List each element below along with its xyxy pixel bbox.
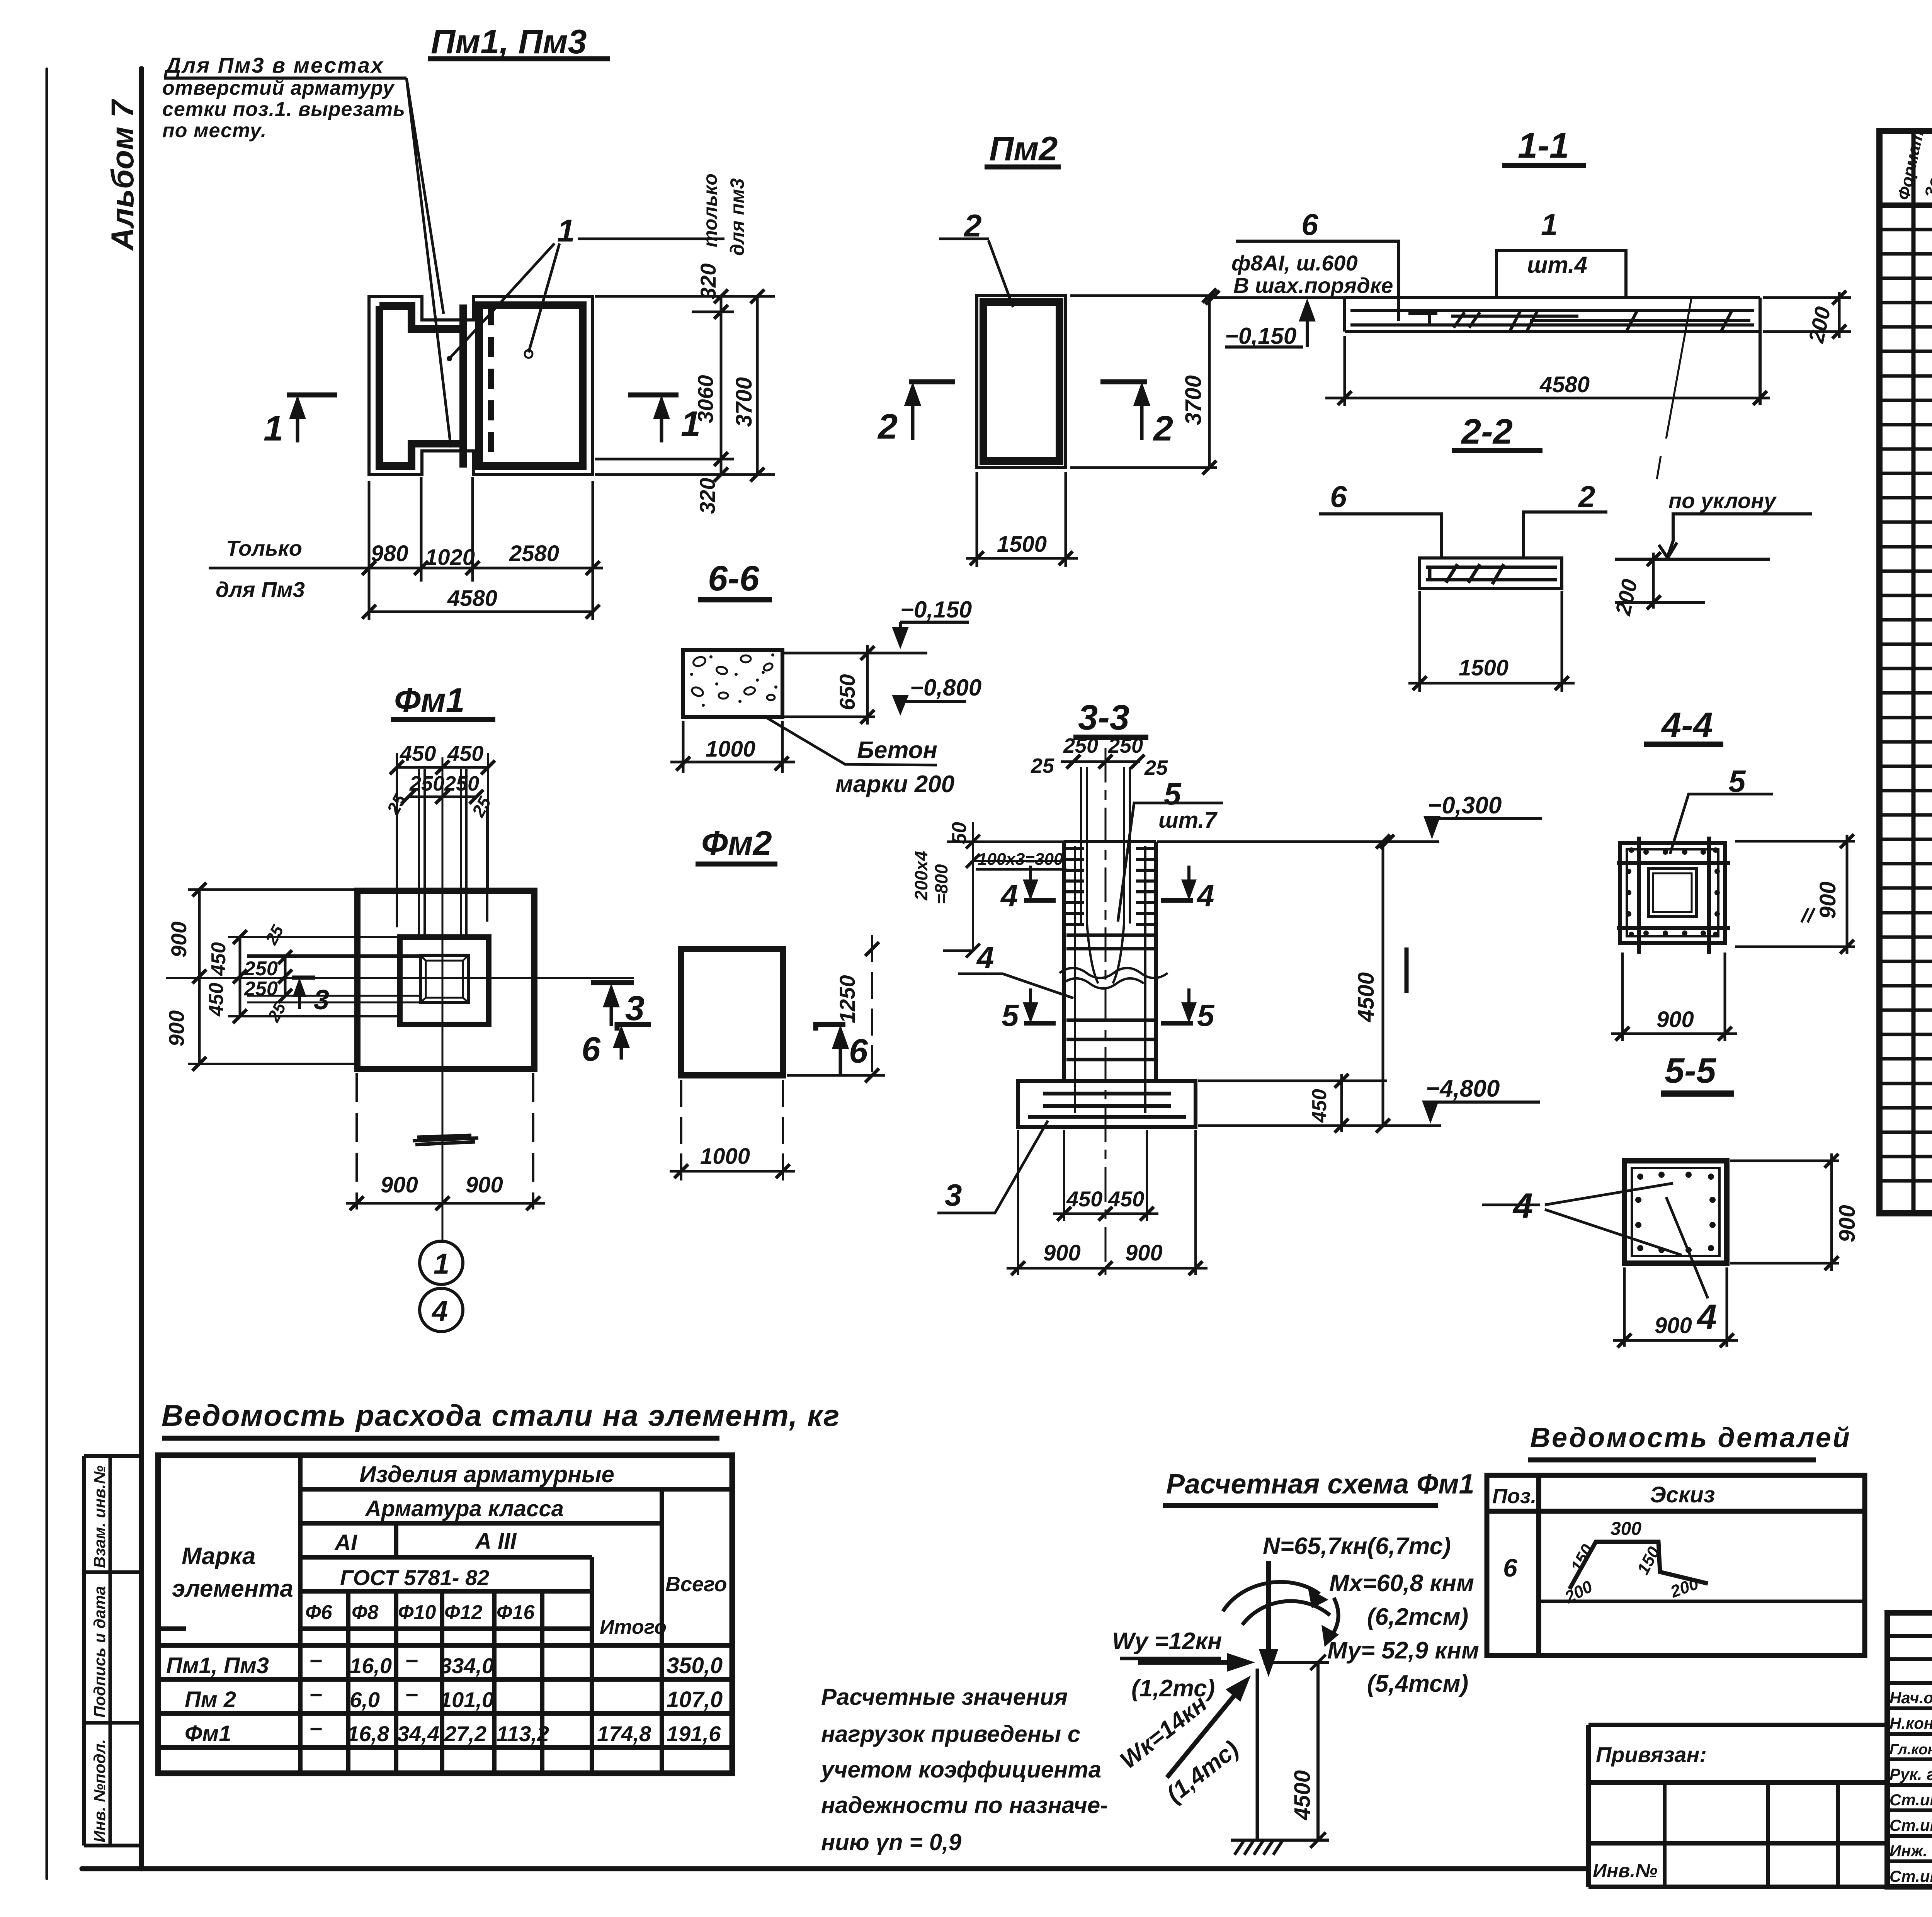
- svg-text:2: 2: [1153, 409, 1173, 448]
- svg-text:Нач.отд.: Нач.отд.: [1889, 1689, 1932, 1707]
- Pm1 bottom dim extension lines: [369, 477, 593, 620]
- svg-text:Марка: Марка: [182, 1543, 255, 1570]
- 3-3 column cage verticals: [1075, 846, 1145, 1113]
- Fm1 inner double square: [420, 955, 468, 1002]
- svg-text:6-6: 6-6: [708, 559, 760, 598]
- section mark 3 inside Fm1: [292, 978, 315, 1009]
- break line artifact: [1657, 297, 1692, 479]
- 4-4 stirrup cross lines: [1617, 837, 1730, 954]
- svg-text:Итого: Итого: [600, 1616, 667, 1638]
- svg-text:650: 650: [835, 674, 859, 710]
- svg-text:3: 3: [314, 985, 329, 1015]
- svg-text:191,6: 191,6: [667, 1721, 721, 1746]
- svg-text:5: 5: [1164, 777, 1182, 811]
- svg-text:2-2: 2-2: [1461, 412, 1513, 451]
- svg-text:107,0: 107,0: [667, 1687, 723, 1712]
- svg-text:5: 5: [1197, 998, 1215, 1032]
- 2-2 dim 1500: [1420, 591, 1562, 692]
- Fm1 left dim 900 900: [188, 890, 359, 1064]
- svg-text:В шах.порядке: В шах.порядке: [1233, 273, 1393, 298]
- stamp column box: [84, 1456, 140, 1846]
- sheet frame bottom line: [82, 1866, 1588, 1871]
- axis circle 1: [420, 1241, 463, 1284]
- svg-text:ф8АI, ш.600: ф8АI, ш.600: [1231, 251, 1358, 275]
- 5-5 dim 900 bottom: [1624, 1267, 1727, 1347]
- svg-text:−: −: [309, 1716, 322, 1742]
- svg-text:Привязан:: Привязан:: [1596, 1742, 1707, 1767]
- privyazan box: [1588, 1725, 1887, 1887]
- section mark 2 right: [1100, 382, 1150, 440]
- slab outline 1-1: [1345, 298, 1760, 405]
- svg-text:для Пм3: для Пм3: [216, 577, 305, 602]
- svg-text:АI: АI: [334, 1530, 358, 1555]
- svg-text:3060: 3060: [693, 375, 718, 423]
- svg-text:900: 900: [466, 1172, 503, 1197]
- section mark 5 left: [1023, 988, 1056, 1023]
- svg-text:−: −: [309, 1682, 322, 1708]
- svg-text:3700: 3700: [731, 377, 757, 427]
- svg-text:Всего: Всего: [665, 1573, 727, 1596]
- svg-text:5: 5: [1002, 998, 1019, 1032]
- svg-text:3: 3: [945, 1178, 962, 1212]
- svg-text:2: 2: [1578, 480, 1595, 514]
- leader to beton marki 200: [767, 718, 937, 765]
- svg-text:350,0: 350,0: [667, 1653, 723, 1678]
- svg-text:6: 6: [1301, 208, 1318, 242]
- svg-text:Пм2: Пм2: [989, 129, 1058, 168]
- section mark 3 right of Fm1: [591, 983, 634, 1026]
- 3-3 footing: [1018, 1081, 1196, 1127]
- svg-text:4580: 4580: [1539, 372, 1590, 397]
- svg-text:1000: 1000: [700, 1144, 750, 1169]
- 3-3 column rebar verticals: [1081, 767, 1130, 924]
- svg-text:−: −: [405, 1682, 418, 1708]
- svg-text:4500: 4500: [1354, 972, 1379, 1022]
- svg-text:450: 450: [1108, 1187, 1144, 1211]
- svg-text:334,0: 334,0: [440, 1653, 494, 1678]
- Fm1 bottom dim 900 900: [357, 1073, 533, 1209]
- spec table header bottom line: [1879, 202, 1932, 208]
- 3-3 break squiggle: [1060, 968, 1168, 978]
- bent detail bars at left: [1408, 310, 1731, 331]
- svg-text:Инж.: Инж.: [1889, 1842, 1927, 1860]
- svg-text:101,0: 101,0: [440, 1687, 494, 1712]
- slab rebar bars 1-1: [1350, 310, 1754, 325]
- Pm1 right dim line 320 3060 320: [720, 296, 723, 475]
- svg-text:(5,4тсм): (5,4тсм): [1367, 1670, 1468, 1697]
- svg-text:Альбом 7: Альбом 7: [105, 99, 140, 251]
- 4-4 outer square: [1620, 843, 1725, 943]
- dim 4500: [1382, 842, 1384, 1126]
- svg-text:34,4: 34,4: [397, 1721, 439, 1746]
- level line -0,300: [1157, 840, 1439, 843]
- 3-3 bottom dim 450 450: [1064, 1130, 1147, 1221]
- svg-text:нагрузок приведены с: нагрузок приведены с: [821, 1721, 1080, 1747]
- svg-text:по месту.: по месту.: [162, 119, 267, 142]
- 4-4 rebar dots: [1626, 847, 1720, 937]
- Fm2 square: [681, 949, 783, 1075]
- svg-text:6,0: 6,0: [350, 1687, 380, 1712]
- svg-text:16,8: 16,8: [347, 1721, 389, 1746]
- Pm1 bottom dim line row2 4580: [369, 611, 593, 613]
- svg-text:Арматура класса: Арматура класса: [364, 1496, 564, 1521]
- svg-text:Гл.констр.: Гл.констр.: [1889, 1742, 1932, 1758]
- Pm1 plan outer contour with notches: [369, 296, 593, 475]
- svg-text:250: 250: [444, 772, 479, 795]
- Pm2 dim 1500: [977, 472, 1066, 567]
- svg-text:нию γn = 0,9: нию γn = 0,9: [821, 1829, 962, 1855]
- svg-text:450: 450: [207, 942, 230, 976]
- Pm1 plan dashed joint line: [488, 305, 494, 466]
- 3-3 footing rebars: [1028, 1094, 1186, 1117]
- Fm1 pedestal square: [400, 937, 489, 1024]
- svg-text:4: 4: [1196, 878, 1214, 913]
- svg-text:Изделия арматурные: Изделия арматурные: [359, 1461, 614, 1487]
- svg-text:элемента: элемента: [172, 1575, 293, 1602]
- Fm1 vertical rebar lines: [397, 769, 487, 938]
- svg-text:по уклону: по уклону: [1668, 488, 1777, 513]
- svg-text:900: 900: [1815, 881, 1840, 919]
- 5-5 rebar dots: [1635, 1172, 1716, 1253]
- concrete block 6-6: [683, 650, 782, 717]
- svg-text:1500: 1500: [997, 532, 1047, 557]
- svg-text:900: 900: [1043, 1240, 1081, 1266]
- 5-5 outer square: [1624, 1161, 1727, 1263]
- svg-text:учетом коэффициента: учетом коэффициента: [820, 1757, 1101, 1783]
- 3-3 rebar funnel: [1087, 924, 1124, 983]
- Pm1 right dim line 3700: [756, 296, 759, 475]
- svg-text:Пм 2: Пм 2: [185, 1687, 236, 1712]
- svg-text:шт.4: шт.4: [1527, 252, 1587, 278]
- steel table horizontals: [158, 1489, 732, 1629]
- axis circle 4: [420, 1288, 463, 1332]
- Fm1 axis lines: [166, 757, 634, 1136]
- section mark 6 right of Fm2: [816, 1024, 849, 1074]
- load N arrow: [1259, 1561, 1278, 1677]
- svg-text:Расчетные значения: Расчетные значения: [821, 1684, 1068, 1710]
- Fm1 top dim 250 250: [408, 796, 476, 798]
- svg-text:250: 250: [409, 772, 444, 795]
- svg-text:16,0: 16,0: [350, 1653, 392, 1678]
- sheet frame left thick line: [139, 69, 144, 1869]
- Fm1 left dim 450 450: [239, 937, 241, 1016]
- svg-text:450: 450: [1066, 1187, 1102, 1211]
- svg-text:отверстий арматуру: отверстий арматуру: [162, 77, 395, 99]
- svg-text:сетки поз.1. вырезать: сетки поз.1. вырезать: [162, 98, 405, 121]
- concrete pebbles: [690, 655, 775, 700]
- svg-text:Взам. инв.№: Взам. инв.№: [90, 1465, 109, 1568]
- steel table outer border: [158, 1455, 732, 1773]
- svg-text:1-1: 1-1: [1518, 126, 1569, 165]
- 3-3 center axis: [1105, 748, 1107, 1275]
- svg-text:−0,150: −0,150: [1225, 323, 1296, 349]
- correction scribble: [413, 1135, 478, 1145]
- svg-text:4: 4: [1000, 878, 1018, 913]
- svg-text:Фм2: Фм2: [701, 824, 772, 862]
- Fm1 outer square: [357, 891, 534, 1069]
- album label "Альбом 7" rotated: [122, 181, 123, 182]
- svg-text:100х3=300: 100х3=300: [978, 850, 1063, 869]
- svg-text:Инв.№: Инв.№: [1593, 1860, 1658, 1881]
- svg-text:Фм1: Фм1: [185, 1721, 231, 1746]
- svg-text:1: 1: [557, 213, 575, 248]
- Pm2 inner thick rect: [983, 302, 1060, 461]
- Pm1 right dim extension lines: [595, 296, 775, 475]
- section mark 4 left: [1023, 866, 1056, 900]
- svg-text:−0,150: −0,150: [900, 597, 972, 623]
- svg-text:320: 320: [696, 264, 720, 299]
- svg-text:6: 6: [1503, 1553, 1518, 1582]
- svg-text:450: 450: [447, 741, 483, 765]
- svg-text:Wу =12кн: Wу =12кн: [1112, 1628, 1222, 1655]
- steel table verticals: [300, 1455, 662, 1773]
- svg-text:Рук. гр.: Рук. гр.: [1889, 1765, 1932, 1783]
- svg-text:Мх=60,8 кнм: Мх=60,8 кнм: [1329, 1570, 1474, 1597]
- svg-text:900: 900: [381, 1172, 418, 1197]
- svg-text:Му= 52,9 кнм: Му= 52,9 кнм: [1327, 1637, 1479, 1664]
- dim 4580 under 1-1: [1344, 336, 1346, 406]
- Pm1 plan inner thick contour left part: [379, 306, 463, 466]
- parts list table: [1487, 1475, 1865, 1655]
- svg-text:200х4: 200х4: [911, 851, 931, 901]
- svg-text:Ст.инж.: Ст.инж.: [1889, 1791, 1932, 1809]
- svg-text:Ведомость деталей: Ведомость деталей: [1530, 1422, 1851, 1453]
- svg-text:900: 900: [1656, 1007, 1694, 1032]
- svg-text:−0,800: −0,800: [910, 675, 981, 701]
- svg-text:1: 1: [1541, 208, 1558, 242]
- spec table outer border: [1879, 131, 1932, 1213]
- section mark 6 right of Fm1: [613, 1024, 651, 1060]
- svg-text:для пм3: для пм3: [726, 178, 748, 256]
- svg-text:174,8: 174,8: [597, 1721, 651, 1746]
- spec table column lines: [1913, 131, 1932, 1213]
- section mark 5 right: [1161, 988, 1197, 1023]
- svg-text:300: 300: [1611, 1519, 1641, 1539]
- 4-4 inner thin square: [1627, 849, 1718, 936]
- dim 450 lower right: [1198, 1081, 1441, 1126]
- svg-text:900: 900: [1655, 1313, 1692, 1338]
- Pm2 outer rect: [977, 296, 1066, 468]
- 4-4 dim 900 right: [1735, 841, 1855, 947]
- section mark 2 left: [904, 382, 955, 440]
- svg-text:250: 250: [244, 958, 278, 980]
- svg-text:N=65,7кн(6,7тс): N=65,7кн(6,7тс): [1263, 1533, 1451, 1560]
- svg-text:1020: 1020: [425, 545, 475, 570]
- svg-text:4500: 4500: [1290, 1770, 1315, 1820]
- svg-text:4: 4: [1696, 1298, 1717, 1337]
- Pm1 plan central thick edge: [459, 304, 467, 468]
- svg-text:6: 6: [582, 1030, 601, 1068]
- signature table grid: [1887, 1613, 1932, 1887]
- scheme 4500 dim: [1264, 1655, 1329, 1848]
- svg-text:6: 6: [1330, 480, 1347, 514]
- 5-5 inner thin square: [1632, 1168, 1719, 1256]
- svg-text:(1,2тс): (1,2тс): [1131, 1675, 1215, 1702]
- spec table row lines (left columns): [1879, 230, 1932, 1181]
- Fm2 dim 1000: [681, 1080, 783, 1180]
- section mark 1 left: [287, 395, 337, 442]
- svg-text:1500: 1500: [1459, 655, 1509, 680]
- detail 6 sketch polyline: [1570, 1542, 1708, 1589]
- svg-text:(6,2тсм): (6,2тсм): [1367, 1604, 1468, 1630]
- 4-4 inner double square: [1648, 869, 1696, 917]
- Fm1 top dim 450 450: [397, 766, 488, 769]
- svg-text:Ст.инж.: Ст.инж.: [1889, 1816, 1932, 1834]
- svg-text:4-4: 4-4: [1661, 706, 1713, 745]
- svg-text:1250: 1250: [835, 975, 859, 1023]
- Pm2 dim 3700: [1070, 296, 1217, 468]
- svg-text:4580: 4580: [447, 586, 497, 611]
- 5-5 dim 900 right: [1730, 1161, 1839, 1263]
- Fm2 dim 1250: [787, 1074, 885, 1077]
- svg-text:Инв. №подл.: Инв. №подл.: [90, 1739, 109, 1842]
- svg-text:Ведомость расхода стали на эле: Ведомость расхода стали на элемент, кг: [162, 1398, 840, 1432]
- svg-text:Фм1: Фм1: [394, 681, 465, 719]
- note leader lines to plan: [406, 78, 451, 447]
- svg-text:1000: 1000: [706, 737, 755, 762]
- svg-text:только: только: [699, 173, 721, 247]
- svg-text:ГОСТ 5781- 82: ГОСТ 5781- 82: [340, 1565, 489, 1590]
- svg-text:113,2: 113,2: [497, 1721, 549, 1746]
- 3-3 full stirrups: [1066, 935, 1154, 1060]
- svg-text:Пм1, Пм3: Пм1, Пм3: [166, 1653, 269, 1678]
- signature rows texts: [1889, 1687, 1932, 1885]
- 3-3 bottom dim 900 900: [1018, 1130, 1196, 1275]
- svg-text:5-5: 5-5: [1665, 1051, 1717, 1090]
- svg-text:=800: =800: [931, 864, 951, 904]
- svg-text:Эскиз: Эскиз: [1650, 1482, 1715, 1507]
- svg-text:3700: 3700: [1181, 375, 1206, 425]
- svg-text:450: 450: [400, 741, 436, 765]
- svg-text:4: 4: [976, 940, 994, 975]
- svg-text:2580: 2580: [509, 541, 559, 566]
- svg-text:450: 450: [205, 983, 228, 1017]
- svg-text:1: 1: [264, 409, 283, 448]
- svg-text:3-3: 3-3: [1078, 698, 1129, 737]
- svg-text:900: 900: [1125, 1240, 1163, 1266]
- 2-2 slab rebars: [1426, 564, 1557, 584]
- svg-text:Подпись и дата: Подпись и дата: [90, 1586, 109, 1718]
- svg-text:шт.7: шт.7: [1158, 808, 1218, 833]
- svg-text:980: 980: [371, 541, 408, 566]
- Pm1 bottom dim line row1 980 1020 2580: [209, 567, 603, 570]
- svg-text:Расчетная схема Фм1: Расчетная схема Фм1: [1166, 1469, 1475, 1500]
- 3-3 dense stirrups top: [1064, 849, 1084, 924]
- svg-text:2: 2: [877, 407, 898, 446]
- svg-text:марки 200: марки 200: [835, 771, 954, 798]
- svg-text:Пм1, Пм3: Пм1, Пм3: [431, 22, 587, 61]
- svg-text:250: 250: [1108, 734, 1143, 757]
- svg-text:Ф10: Ф10: [398, 1601, 436, 1624]
- Wk arrow diagonal: [1167, 1675, 1251, 1778]
- sheet frame left thin line: [46, 69, 48, 1879]
- svg-text:Ф12: Ф12: [444, 1601, 483, 1624]
- Pm1 plan right slab inner thick rect: [479, 305, 583, 466]
- section mark 4 right: [1161, 866, 1197, 900]
- 6-6 dim 650: [786, 653, 875, 717]
- svg-text:450: 450: [1308, 1089, 1331, 1123]
- 3-3 column outline: [1064, 842, 1156, 1081]
- ground hatch: [1231, 1840, 1285, 1855]
- svg-text:А III: А III: [474, 1529, 517, 1554]
- 2-2 slab band: [1420, 558, 1562, 589]
- 4-4 dim 900 bottom: [1622, 953, 1725, 1041]
- svg-text:900: 900: [1835, 1205, 1860, 1242]
- svg-text:900: 900: [164, 1010, 189, 1046]
- svg-text:Ф8: Ф8: [352, 1601, 379, 1624]
- svg-text:Ф16: Ф16: [497, 1601, 535, 1624]
- svg-text:4: 4: [431, 1295, 448, 1327]
- svg-text:900: 900: [167, 922, 191, 958]
- svg-text:250: 250: [1063, 734, 1098, 757]
- svg-text:Только: Только: [226, 536, 302, 560]
- 2-2 level lines and dim 200: [1615, 559, 1770, 602]
- stamp column inner divider: [109, 1456, 112, 1846]
- svg-text:Поз.: Поз.: [1492, 1485, 1536, 1508]
- svg-text:Н.контр.: Н.контр.: [1889, 1714, 1932, 1732]
- svg-text:Для Пм3 в местах: Для Пм3 в местах: [164, 53, 384, 77]
- svg-text:Ст.инж.: Ст.инж.: [1889, 1867, 1932, 1885]
- section mark 1 right: [628, 395, 679, 442]
- svg-text:320: 320: [695, 478, 719, 514]
- svg-text:надежности по назначе-: надежности по назначе-: [821, 1792, 1108, 1818]
- Wy arrow: [1138, 1653, 1255, 1672]
- svg-text:Бетон: Бетон: [857, 737, 937, 764]
- svg-text:−4,800: −4,800: [1426, 1075, 1500, 1102]
- moment arcs: [1223, 1582, 1338, 1641]
- svg-text:6: 6: [849, 1032, 868, 1070]
- svg-text:1: 1: [434, 1248, 449, 1280]
- dim 200 right of 1-1: [1763, 298, 1851, 332]
- svg-text:25: 25: [1031, 754, 1054, 777]
- svg-text:−0,300: −0,300: [1428, 792, 1502, 819]
- svg-text:25: 25: [1144, 756, 1168, 779]
- column line of scheme: [1256, 1669, 1259, 1840]
- svg-text:−: −: [309, 1648, 322, 1674]
- svg-text:Ф6: Ф6: [305, 1601, 333, 1624]
- svg-text:27,2: 27,2: [444, 1721, 486, 1746]
- 6-6 dim 1000: [683, 721, 782, 773]
- svg-text:−: −: [405, 1648, 418, 1674]
